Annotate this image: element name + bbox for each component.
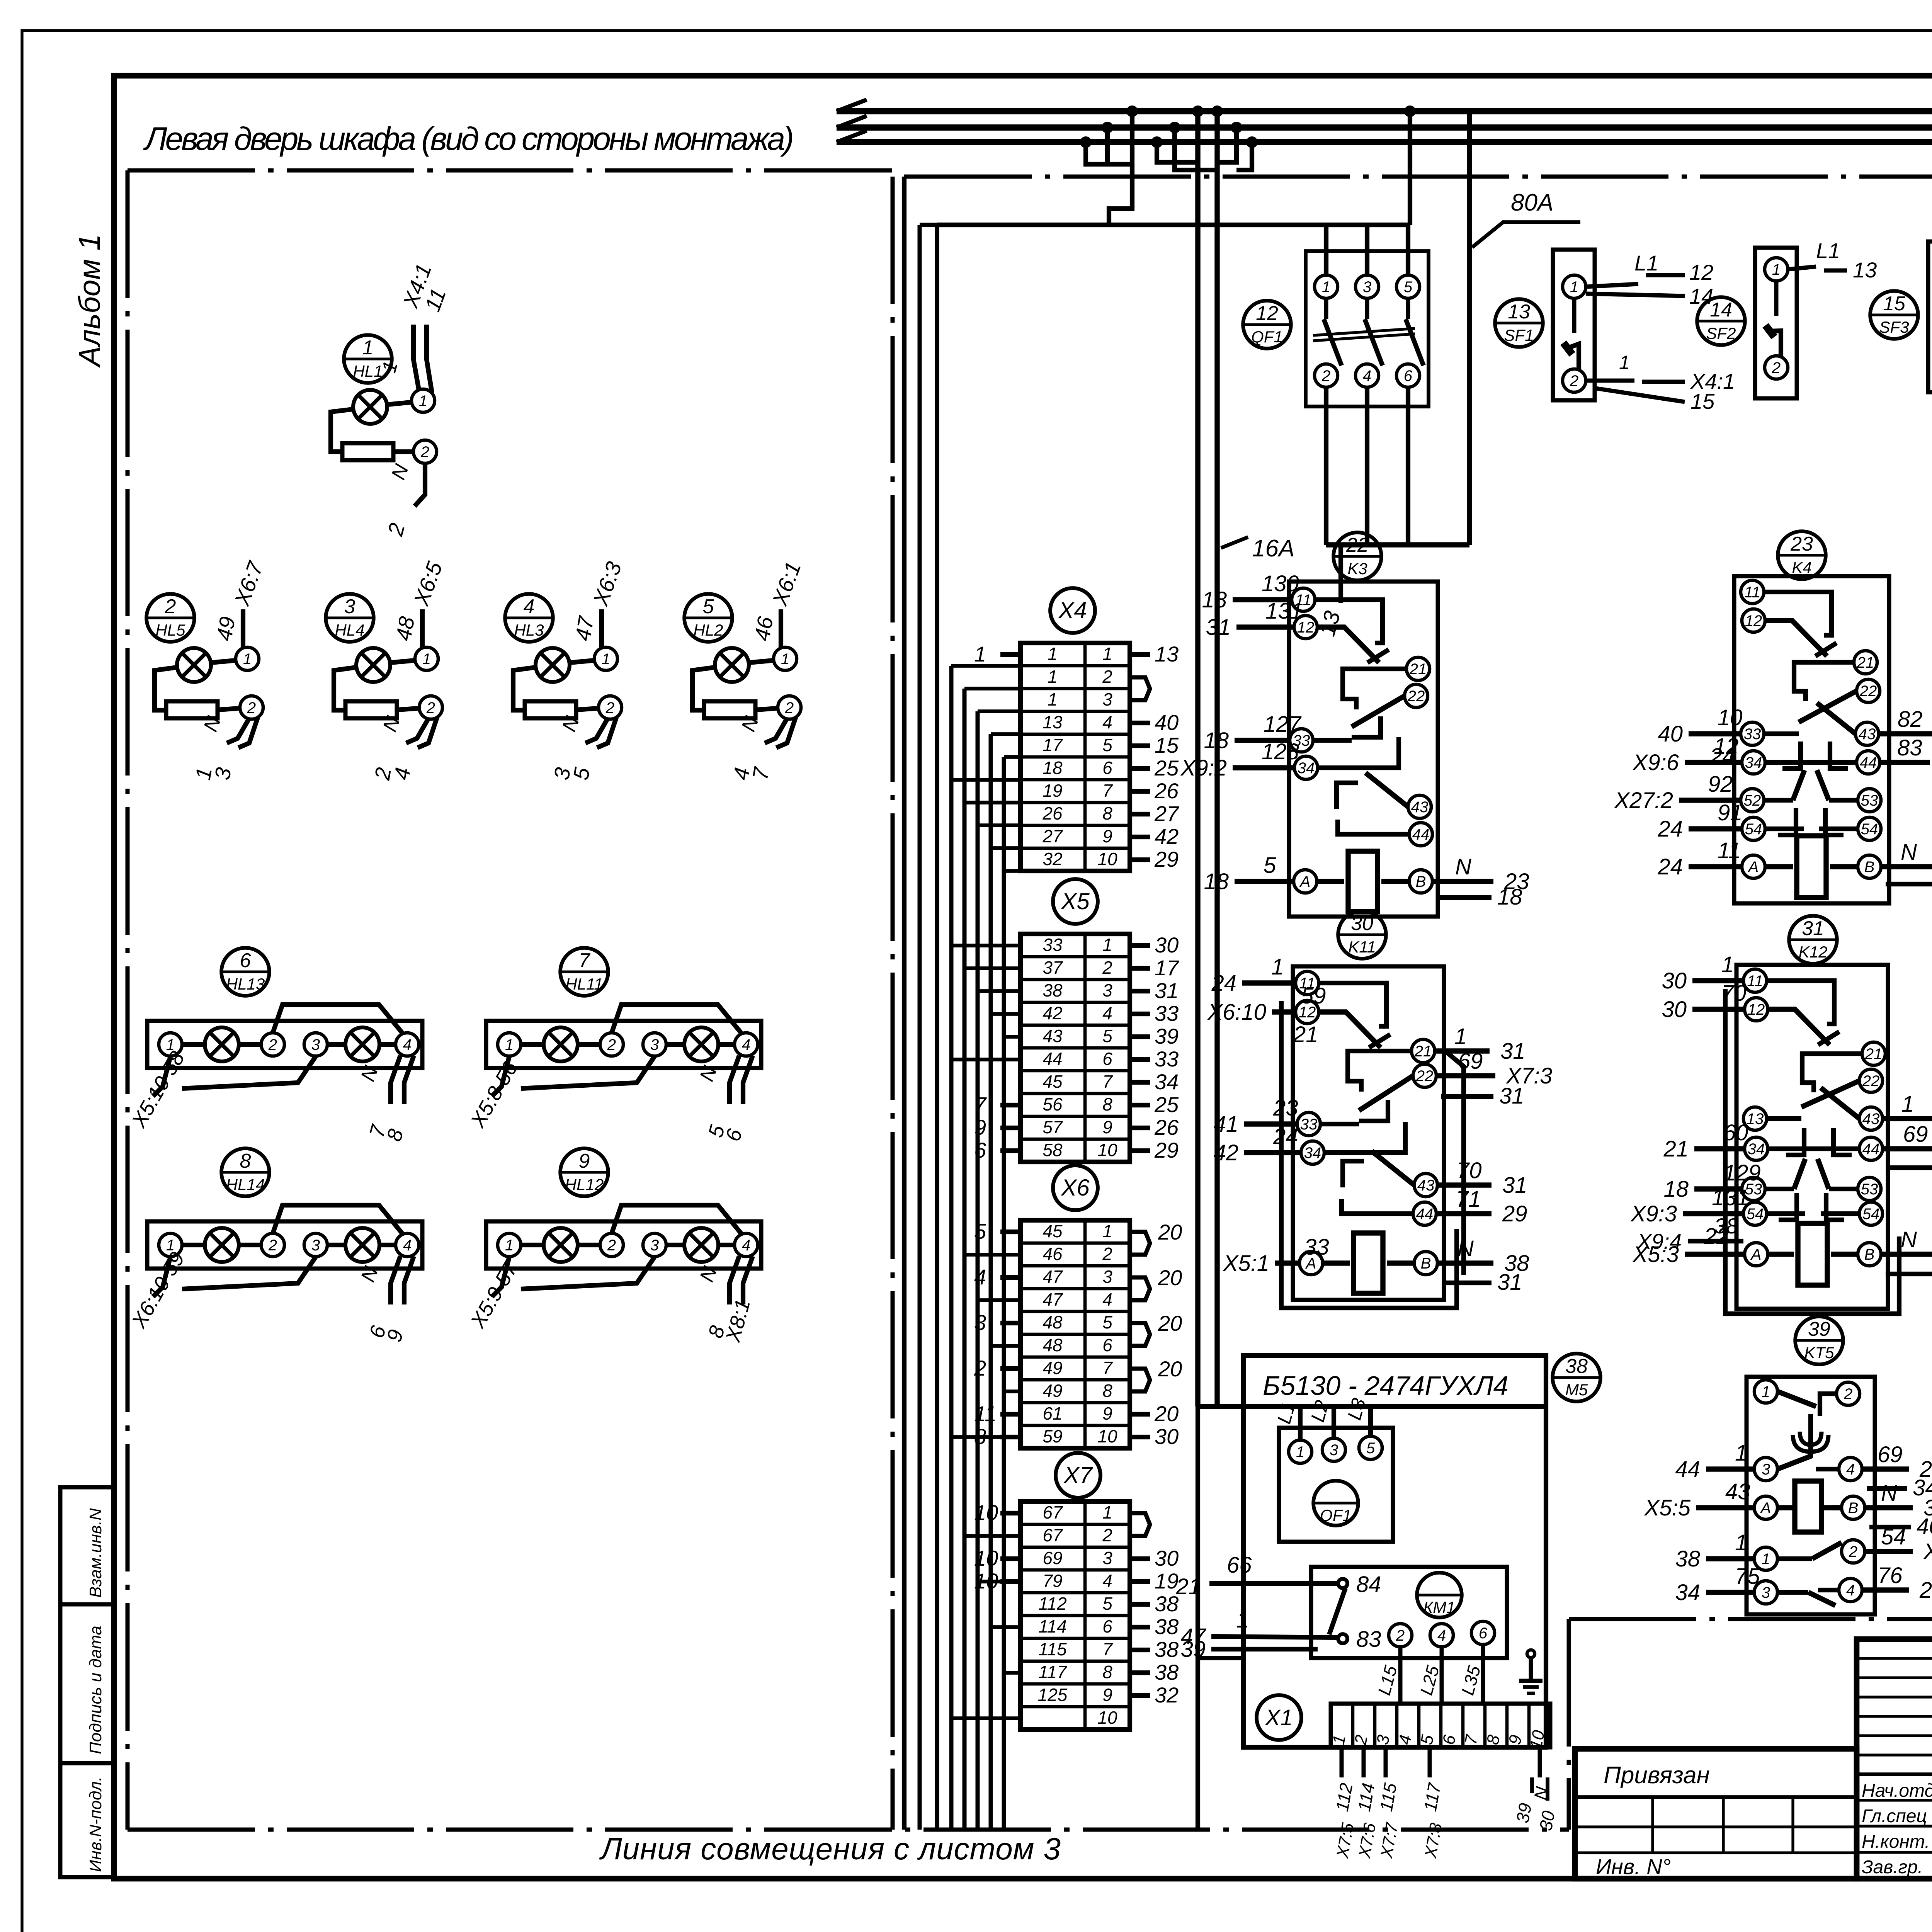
svg-text:44: 44 (1862, 1141, 1880, 1158)
svg-text:22: 22 (1862, 1073, 1880, 1090)
svg-text:N: N (1901, 840, 1917, 865)
svg-text:2: 2 (607, 1036, 616, 1053)
svg-text:1: 1 (1102, 644, 1112, 664)
svg-text:1: 1 (1901, 1092, 1914, 1117)
bundle stub X7 (978, 1580, 1020, 1583)
svg-text:X5:5: X5:5 (1644, 1495, 1691, 1520)
svg-text:1: 1 (1454, 1024, 1467, 1049)
SF1 wire 15 (1596, 388, 1685, 402)
bundle wire (949, 666, 954, 1830)
connector X4 (1050, 588, 1095, 633)
svg-text:44: 44 (1416, 1206, 1434, 1223)
svg-text:2: 2 (605, 699, 614, 716)
svg-text:15: 15 (1883, 293, 1906, 315)
wire bus jog 2 (1175, 128, 1217, 170)
svg-text:5: 5 (1264, 853, 1276, 878)
svg-text:31: 31 (1502, 1173, 1527, 1198)
svg-text:53: 53 (1861, 1181, 1878, 1198)
ground (1529, 1658, 1533, 1681)
svg-text:N: N (1901, 1227, 1917, 1252)
svg-text:27: 27 (1042, 826, 1063, 846)
svg-text:8: 8 (1102, 1662, 1112, 1682)
svg-text:3: 3 (1363, 279, 1371, 296)
svg-text:12: 12 (1256, 302, 1278, 325)
svg-text:N: N (387, 461, 413, 483)
svg-text:Б5130 - 2474ГУХЛ4: Б5130 - 2474ГУХЛ4 (1263, 1371, 1509, 1401)
bundle stub X7 (1004, 1671, 1020, 1675)
wire 16A feeder 1 (1195, 111, 1200, 1406)
svg-text:5: 5 (1366, 1440, 1375, 1457)
SF1 wire X4:1 (1586, 379, 1634, 383)
svg-text:3: 3 (311, 1237, 320, 1254)
svg-text:1: 1 (1102, 1221, 1112, 1241)
bus junction (1169, 122, 1180, 133)
QF1 pole stem (1406, 298, 1410, 319)
svg-text:44: 44 (1412, 826, 1430, 843)
svg-text:2: 2 (785, 699, 794, 716)
svg-text:38: 38 (1043, 980, 1063, 1000)
svg-text:10: 10 (1718, 705, 1743, 730)
svg-text:13: 13 (1315, 608, 1345, 639)
svg-text:71: 71 (1456, 1187, 1481, 1212)
svg-text:112: 112 (1038, 1594, 1066, 1614)
svg-text:28: 28 (1919, 1578, 1932, 1603)
bundle stub X6 (964, 1253, 1020, 1257)
wire QF1 output bus (1326, 542, 1469, 547)
wire bus jog 1 (1157, 142, 1198, 162)
svg-text:8: 8 (240, 1150, 251, 1172)
svg-text:67: 67 (1043, 1525, 1063, 1545)
bundle wire (989, 734, 993, 1830)
svg-text:33: 33 (1155, 1047, 1179, 1071)
svg-text:X7: X7 (1063, 1462, 1093, 1488)
svg-text:30: 30 (1662, 997, 1687, 1022)
SF1 wire 14 (1586, 294, 1685, 296)
svg-text:X9:2: X9:2 (1180, 755, 1227, 781)
bus L1 (837, 108, 1932, 114)
svg-text:11: 11 (1744, 584, 1760, 601)
svg-text:70: 70 (1721, 981, 1747, 1006)
QF1 pin 4 (1355, 364, 1379, 387)
svg-text:X5:3: X5:3 (1632, 1242, 1679, 1267)
svg-text:38: 38 (1155, 1614, 1179, 1639)
wire bus drop a (1086, 142, 1132, 164)
svg-text:33: 33 (1043, 935, 1063, 955)
svg-text:X4: X4 (1058, 597, 1087, 623)
svg-text:N: N (737, 713, 763, 735)
svg-text:25: 25 (1154, 756, 1179, 780)
svg-text:37: 37 (1043, 957, 1063, 978)
relay K12 outer wire loop (1725, 989, 1899, 1314)
QF1 feed wire (1332, 1406, 1336, 1438)
svg-text:1: 1 (422, 651, 431, 668)
svg-text:12: 12 (1748, 1001, 1765, 1018)
svg-text:X6: X6 (1060, 1175, 1090, 1201)
bus junction (1151, 136, 1163, 148)
lamp HL2 (684, 594, 732, 642)
svg-text:13: 13 (1043, 712, 1063, 732)
svg-text:6: 6 (1102, 1049, 1112, 1069)
wire bus jog 4 (1236, 142, 1252, 170)
svg-text:A: A (1748, 859, 1759, 876)
svg-text:57: 57 (1043, 1117, 1063, 1137)
svg-text:4: 4 (1363, 367, 1371, 384)
bus junction (1126, 105, 1138, 117)
svg-text:2: 2 (1396, 1627, 1405, 1644)
svg-text:49: 49 (1043, 1358, 1062, 1378)
relay K11 outer wire loop (1281, 1001, 1457, 1308)
svg-text:X6:7: X6:7 (229, 558, 268, 609)
switch SF3 (1928, 241, 1932, 392)
svg-text:31: 31 (1500, 1039, 1526, 1064)
svg-text:X6:10 59: X6:10 59 (127, 1248, 189, 1333)
svg-text:10: 10 (1097, 1140, 1117, 1160)
svg-text:3: 3 (344, 595, 355, 618)
svg-text:1: 1 (1048, 667, 1058, 687)
svg-text:117: 117 (1038, 1662, 1067, 1682)
contactor KM1 (1311, 1567, 1507, 1658)
svg-text:9: 9 (1102, 1685, 1112, 1705)
lamp HL5 (146, 594, 194, 642)
svg-text:X6:3: X6:3 (588, 558, 626, 609)
svg-text:59: 59 (1043, 1426, 1062, 1446)
QF1 pin 5 (1396, 275, 1420, 298)
svg-text:52: 52 (1744, 792, 1761, 809)
svg-text:83: 83 (1356, 1627, 1381, 1652)
panel outline bottom dash-dot (1569, 1617, 1932, 1621)
svg-text:1: 1 (1735, 1530, 1747, 1555)
svg-text:1: 1 (243, 651, 252, 668)
door outline right dash-dot (891, 177, 895, 1830)
svg-text:14: 14 (1689, 284, 1713, 308)
bus L3 arrow (837, 131, 867, 142)
svg-text:4: 4 (403, 1237, 412, 1254)
svg-text:18: 18 (1202, 587, 1227, 612)
svg-text:2: 2 (1844, 1386, 1852, 1403)
breaker QF1 box (1306, 251, 1429, 406)
svg-text:1: 1 (419, 393, 427, 410)
svg-text:A: A (1750, 1246, 1762, 1263)
svg-text:2: 2 (165, 595, 176, 618)
svg-text:9: 9 (579, 1150, 590, 1172)
door outline top dash-dot (128, 168, 893, 173)
svg-text:31: 31 (1155, 978, 1179, 1003)
connector X1 (1257, 1695, 1301, 1740)
svg-text:2: 2 (607, 1237, 616, 1254)
svg-text:X5:10 58: X5:10 58 (127, 1048, 189, 1132)
svg-text:46: 46 (1043, 1244, 1063, 1264)
timer KT5 (1795, 1316, 1843, 1364)
lamp HL3 (505, 594, 553, 642)
svg-text:42: 42 (1213, 1140, 1238, 1165)
svg-text:1: 1 (1102, 935, 1112, 955)
svg-text:X5:1: X5:1 (1223, 1251, 1269, 1276)
svg-text:М5: М5 (1565, 1381, 1588, 1399)
QF1 pin 6 (1396, 364, 1420, 387)
svg-text:1: 1 (1762, 1551, 1770, 1568)
svg-text:2: 2 (1570, 372, 1578, 389)
lamp HL1 (344, 335, 392, 383)
relay K12 (1736, 965, 1888, 1309)
svg-text:42: 42 (1043, 1003, 1062, 1023)
wire left vertical down (1196, 1406, 1200, 1830)
svg-text:X8:1: X8:1 (721, 1297, 755, 1345)
svg-text:47: 47 (1043, 1289, 1063, 1310)
svg-text:КМ1: КМ1 (1423, 1598, 1455, 1616)
svg-text:1: 1 (974, 642, 986, 666)
bundle wire (976, 711, 980, 1830)
svg-text:N: N (1458, 1236, 1474, 1261)
svg-text:X7:7: X7:7 (1377, 1821, 1401, 1860)
svg-text:31: 31 (1497, 1270, 1522, 1295)
svg-text:30: 30 (1155, 933, 1179, 957)
svg-text:X7:6: X7:6 (1355, 1821, 1379, 1860)
svg-text:1: 1 (1570, 279, 1578, 296)
sheet3 match line dash-dot (128, 1828, 1569, 1832)
svg-text:79: 79 (1043, 1571, 1062, 1591)
svg-text:X6:1: X6:1 (767, 558, 805, 609)
bus L2 (837, 124, 1932, 131)
svg-text:21: 21 (1414, 1043, 1432, 1060)
svg-text:2: 2 (1849, 1543, 1857, 1560)
svg-text:KT5: KT5 (1804, 1344, 1834, 1362)
svg-text:40: 40 (1658, 721, 1683, 747)
svg-text:19: 19 (1043, 781, 1062, 801)
wire 16A feeder 2 (1214, 111, 1219, 1406)
bundle wire (963, 689, 967, 1830)
svg-text:60: 60 (1723, 1120, 1748, 1145)
svg-text:2: 2 (420, 444, 429, 461)
svg-text:30: 30 (1155, 1546, 1179, 1570)
svg-text:L1: L1 (1273, 1400, 1299, 1426)
svg-text:3: 3 (1762, 1584, 1770, 1601)
bus junction (1211, 105, 1223, 117)
svg-text:53: 53 (1861, 792, 1878, 809)
svg-text:69: 69 (1458, 1049, 1483, 1074)
svg-text:2: 2 (1102, 957, 1112, 978)
svg-text:8: 8 (1102, 803, 1112, 823)
wire KM1 left (1198, 1656, 1243, 1660)
QF1 pole blade (1406, 319, 1423, 366)
svg-text:K4: K4 (1792, 558, 1811, 577)
svg-text:X6:10: X6:10 (1207, 1000, 1266, 1025)
svg-text:40: 40 (1155, 710, 1179, 735)
svg-text:21: 21 (1293, 1022, 1318, 1047)
wire QF1 pin4 down (1365, 387, 1369, 545)
svg-text:2: 2 (1102, 667, 1112, 687)
svg-text:70: 70 (1457, 1158, 1482, 1183)
lamp strip HL13 (221, 948, 269, 996)
svg-text:54: 54 (1862, 1206, 1880, 1223)
svg-text:47: 47 (570, 614, 599, 643)
svg-text:X9:3: X9:3 (1630, 1201, 1677, 1226)
svg-text:1: 1 (1296, 1444, 1304, 1461)
svg-text:8: 8 (383, 1127, 408, 1144)
svg-text:43: 43 (1043, 1026, 1063, 1046)
svg-text:40: 40 (1917, 1514, 1932, 1539)
svg-text:6: 6 (1102, 1616, 1112, 1636)
svg-text:34: 34 (1748, 1141, 1765, 1158)
svg-text:30: 30 (1536, 1809, 1559, 1832)
svg-text:6: 6 (721, 1126, 747, 1144)
svg-text:Взам.инв.N: Взам.инв.N (86, 1508, 105, 1598)
svg-text:43: 43 (1862, 1111, 1880, 1128)
bundle stub X4/X5 (964, 801, 1020, 804)
svg-text:38: 38 (1155, 1660, 1179, 1684)
svg-text:1: 1 (505, 1036, 514, 1053)
svg-text:45: 45 (1043, 1221, 1063, 1241)
stamp box inv (60, 1763, 114, 1877)
svg-text:47: 47 (1043, 1267, 1063, 1287)
svg-text:4: 4 (1102, 1003, 1112, 1023)
svg-text:129: 129 (1723, 1160, 1761, 1185)
svg-text:3: 3 (1102, 1267, 1112, 1287)
svg-text:2: 2 (1102, 1244, 1112, 1264)
bus junction (1192, 105, 1204, 117)
svg-text:48: 48 (1043, 1335, 1063, 1355)
connector X7 (1056, 1453, 1100, 1498)
svg-text:34: 34 (1675, 1580, 1700, 1605)
svg-text:38: 38 (1155, 1592, 1179, 1616)
svg-text:83: 83 (1897, 735, 1922, 760)
bus L1 arrow (837, 100, 867, 111)
svg-text:18: 18 (1043, 758, 1063, 778)
svg-text:30: 30 (1662, 968, 1687, 993)
block M5 label (1553, 1354, 1600, 1401)
SF2 wire L1 (1788, 267, 1816, 269)
bundle stub X6 (978, 1298, 1020, 1302)
QF1 tie bar 2 (1313, 334, 1415, 341)
lamp strip HL14 (221, 1148, 269, 1196)
svg-text:L2: L2 (1307, 1398, 1333, 1424)
svg-text:19: 19 (1155, 1569, 1179, 1593)
svg-text:25: 25 (1154, 1092, 1179, 1117)
svg-text:4: 4 (1846, 1582, 1855, 1599)
QF1 tie bar (1313, 328, 1415, 335)
svg-text:20: 20 (1158, 1265, 1182, 1290)
door outline left dash-dot (126, 170, 130, 1830)
svg-text:13: 13 (1853, 258, 1877, 282)
svg-text:54: 54 (1881, 1524, 1906, 1549)
svg-text:30: 30 (1155, 1424, 1179, 1449)
svg-text:QF1: QF1 (1320, 1506, 1352, 1524)
svg-text:B: B (1864, 1246, 1875, 1263)
svg-text:33: 33 (1300, 1116, 1318, 1133)
svg-text:21: 21 (1663, 1136, 1689, 1162)
svg-text:23: 23 (1790, 533, 1813, 555)
bundle wire (1002, 757, 1006, 1830)
svg-text:43: 43 (1411, 799, 1429, 816)
svg-text:29: 29 (1502, 1201, 1527, 1226)
svg-text:3: 3 (650, 1237, 659, 1254)
svg-text:Подпись и дата: Подпись и дата (86, 1626, 105, 1754)
svg-text:1: 1 (602, 651, 610, 668)
svg-text:49: 49 (212, 615, 240, 643)
svg-text:128: 128 (1262, 739, 1299, 764)
svg-text:5: 5 (1102, 1594, 1112, 1614)
bundle stub X6 (991, 1344, 1020, 1348)
svg-text:HL4: HL4 (335, 621, 364, 639)
svg-text:22: 22 (1407, 688, 1425, 705)
svg-text:26: 26 (1042, 803, 1063, 823)
svg-text:4: 4 (1102, 1571, 1112, 1591)
svg-text:1: 1 (781, 651, 789, 668)
svg-text:11: 11 (1718, 838, 1741, 863)
svg-text:27: 27 (1154, 801, 1179, 826)
svg-text:18: 18 (1204, 728, 1229, 753)
bus junction (1080, 136, 1092, 148)
svg-text:31: 31 (1206, 615, 1231, 640)
svg-text:115: 115 (1038, 1639, 1067, 1659)
bundle stub X6 (1004, 1389, 1020, 1393)
svg-text:66: 66 (1227, 1553, 1252, 1578)
svg-text:39: 39 (1512, 1801, 1536, 1824)
svg-text:15: 15 (1155, 733, 1179, 757)
svg-text:69: 69 (1878, 1442, 1903, 1467)
svg-text:26: 26 (1154, 1115, 1179, 1139)
svg-text:44: 44 (1043, 1049, 1062, 1069)
svg-text:HL13: HL13 (226, 975, 265, 993)
HL1 lamp-t1 (387, 402, 412, 405)
svg-text:6: 6 (1102, 1335, 1112, 1355)
lamp strip HL12 (560, 1148, 608, 1196)
connector X5 (1053, 879, 1098, 924)
HL1 res-t2 (393, 449, 413, 454)
svg-text:32: 32 (1155, 1683, 1179, 1707)
svg-text:9: 9 (1102, 1117, 1112, 1137)
svg-text:59: 59 (1301, 983, 1326, 1009)
svg-text:Зав.гр.: Зав.гр. (1862, 1857, 1923, 1878)
svg-text:39: 39 (1808, 1318, 1830, 1340)
svg-text:1: 1 (1048, 689, 1058, 709)
svg-text:3: 3 (311, 1036, 320, 1053)
svg-text:2: 2 (268, 1036, 277, 1053)
switch SF1 (1553, 250, 1595, 400)
16A leader (1221, 537, 1248, 548)
svg-text:N: N (1881, 1481, 1897, 1506)
svg-text:10: 10 (1526, 1729, 1548, 1751)
svg-text:38: 38 (1155, 1637, 1179, 1662)
HL1 wire1b (427, 325, 432, 393)
svg-text:48: 48 (1043, 1312, 1063, 1332)
svg-text:117: 117 (1420, 1781, 1445, 1813)
svg-text:17: 17 (1043, 735, 1063, 755)
block B5130-2474GUHL4 (1243, 1355, 1546, 1747)
svg-text:20: 20 (1158, 1357, 1182, 1381)
SF1 wire L1 (1586, 284, 1638, 287)
wire 21-84 (1209, 1581, 1338, 1586)
bundle stub X4/X5 (1004, 869, 1020, 873)
svg-text:58: 58 (1043, 1140, 1063, 1160)
svg-text:N: N (1455, 854, 1471, 879)
svg-text:HL14: HL14 (226, 1175, 265, 1194)
svg-text:45: 45 (1043, 1071, 1063, 1092)
bundle stub X5 (991, 1012, 1020, 1016)
title привязан box (1575, 1749, 1857, 1879)
svg-text:10: 10 (1097, 849, 1117, 869)
wire 16A to block (1198, 1404, 1300, 1409)
bus junction (1404, 105, 1416, 117)
svg-text:X9:6: X9:6 (1632, 750, 1679, 775)
svg-text:131: 131 (1265, 599, 1303, 624)
wire QF1 pin6 down (1406, 387, 1410, 545)
svg-text:L1: L1 (1634, 251, 1658, 275)
svg-text:Привязан: Привязан (1604, 1762, 1710, 1789)
svg-text:130: 130 (1262, 571, 1299, 596)
svg-text:8: 8 (1102, 1094, 1112, 1114)
relay K11 label (1338, 911, 1386, 959)
wire QF1 pin1 riser (1324, 225, 1328, 275)
